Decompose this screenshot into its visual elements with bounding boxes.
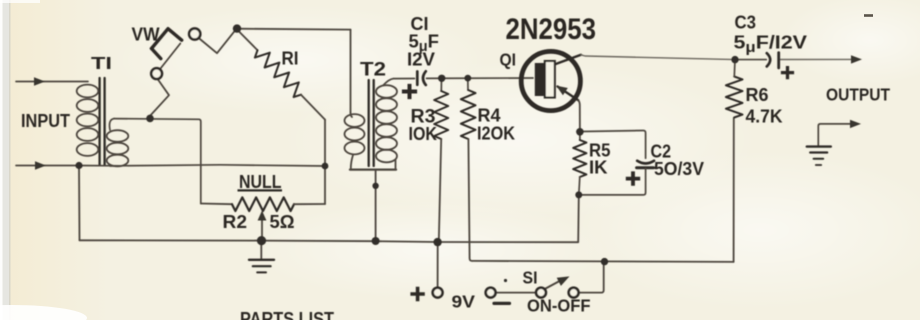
svg-text:IK: IK xyxy=(589,157,608,178)
svg-text:VW: VW xyxy=(132,24,160,45)
svg-text:QI: QI xyxy=(500,50,517,70)
svg-text:I2OK: I2OK xyxy=(477,124,515,144)
svg-text:NULL: NULL xyxy=(239,172,282,192)
svg-text:IOK: IOK xyxy=(409,123,438,144)
svg-text:5O/3V: 5O/3V xyxy=(654,158,705,179)
svg-text:ON-OFF: ON-OFF xyxy=(527,296,591,316)
svg-text:TI: TI xyxy=(91,53,112,73)
svg-text:R2: R2 xyxy=(223,211,248,232)
svg-text:OUTPUT: OUTPUT xyxy=(826,85,890,105)
svg-text:2N2953: 2N2953 xyxy=(506,13,597,46)
svg-text:9V: 9V xyxy=(452,292,476,312)
svg-text:PARTS LIST: PARTS LIST xyxy=(240,309,334,320)
svg-text:SI: SI xyxy=(523,268,538,288)
svg-text:INPUT: INPUT xyxy=(21,111,70,131)
svg-text:I2V: I2V xyxy=(407,50,435,70)
svg-text:4.7K: 4.7K xyxy=(746,106,784,127)
svg-text:5μF/I2V: 5μF/I2V xyxy=(734,32,808,57)
svg-text:R4: R4 xyxy=(478,105,502,126)
svg-text:5Ω: 5Ω xyxy=(270,211,295,232)
svg-text:T2: T2 xyxy=(360,60,386,81)
svg-text:R6: R6 xyxy=(746,84,769,105)
svg-text:C3: C3 xyxy=(735,12,757,33)
svg-text:RI: RI xyxy=(282,49,299,69)
